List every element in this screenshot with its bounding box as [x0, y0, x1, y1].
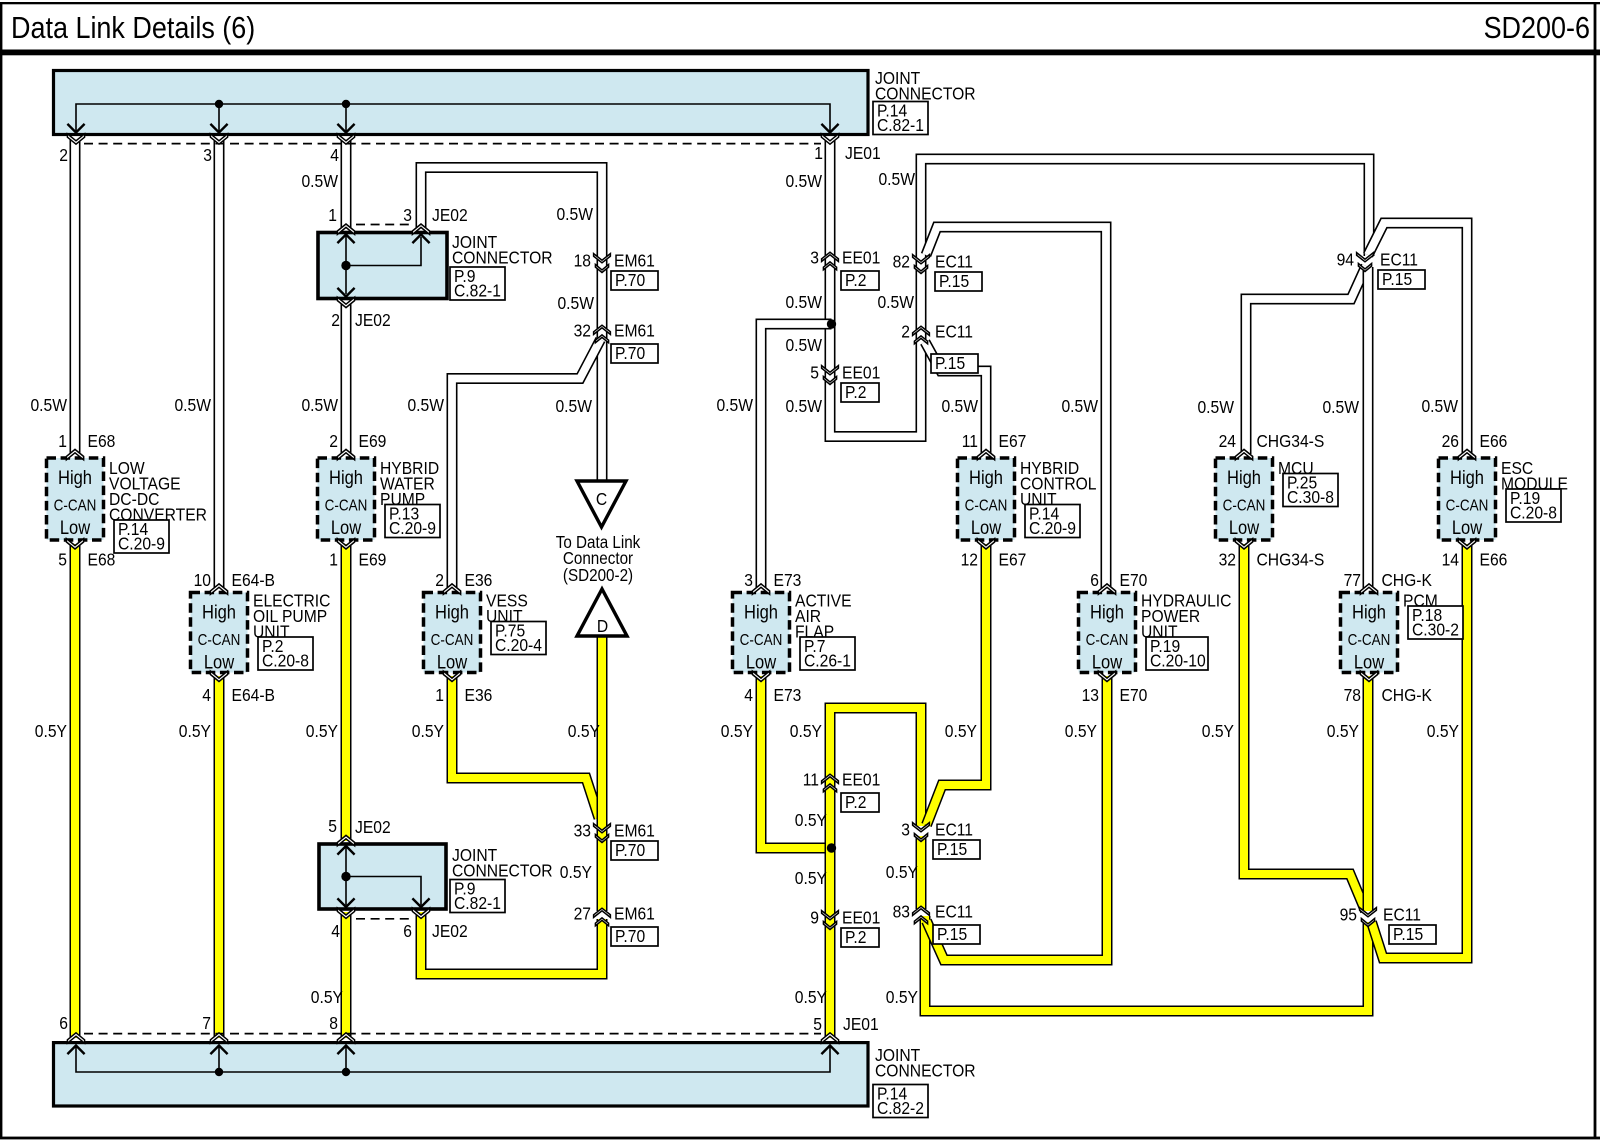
svg-text:0.5Y: 0.5Y [311, 987, 343, 1007]
svg-text:JE02: JE02 [432, 205, 468, 225]
svg-text:EC11: EC11 [1380, 249, 1418, 269]
svg-text:0.5W: 0.5W [1061, 396, 1098, 416]
svg-text:E67: E67 [999, 549, 1027, 569]
svg-text:0.5W: 0.5W [785, 171, 822, 191]
svg-text:C.30-2: C.30-2 [1412, 619, 1459, 639]
svg-text:0.5Y: 0.5Y [1327, 721, 1359, 741]
svg-text:P.15: P.15 [937, 839, 967, 859]
svg-text:Low: Low [60, 517, 90, 538]
svg-text:P.2: P.2 [845, 270, 866, 290]
svg-text:High: High [1450, 467, 1484, 488]
svg-text:E36: E36 [465, 570, 493, 590]
svg-text:E64-B: E64-B [232, 570, 275, 590]
svg-text:0.5Y: 0.5Y [795, 868, 827, 888]
svg-text:0.5W: 0.5W [785, 396, 822, 416]
svg-text:26: 26 [1442, 431, 1459, 451]
svg-text:C.20-4: C.20-4 [495, 635, 542, 655]
svg-text:0.5Y: 0.5Y [1065, 721, 1097, 741]
svg-text:E36: E36 [465, 685, 493, 705]
svg-text:0.5Y: 0.5Y [795, 810, 827, 830]
svg-text:8: 8 [329, 1013, 338, 1033]
svg-text:C-CAN: C-CAN [1086, 632, 1129, 649]
svg-text:EE01: EE01 [842, 769, 880, 789]
svg-text:E70: E70 [1120, 570, 1148, 590]
svg-text:0.5Y: 0.5Y [721, 721, 753, 741]
svg-text:CHG-K: CHG-K [1382, 685, 1433, 705]
svg-text:High: High [1227, 467, 1261, 488]
svg-text:0.5W: 0.5W [877, 292, 914, 312]
svg-text:Low: Low [746, 651, 776, 672]
svg-text:CHG34-S: CHG34-S [1257, 549, 1325, 569]
svg-text:High: High [1352, 601, 1386, 622]
svg-text:5: 5 [328, 816, 337, 836]
svg-text:EM61: EM61 [614, 903, 655, 923]
svg-text:0.5W: 0.5W [1197, 397, 1234, 417]
svg-text:4: 4 [331, 921, 340, 941]
svg-text:0.5W: 0.5W [30, 395, 67, 415]
svg-text:0.5W: 0.5W [407, 395, 444, 415]
svg-text:EC11: EC11 [935, 819, 973, 839]
svg-text:High: High [969, 467, 1003, 488]
svg-text:32: 32 [574, 320, 591, 340]
svg-text:Low: Low [331, 517, 361, 538]
svg-text:2: 2 [59, 145, 68, 165]
svg-text:1: 1 [435, 685, 444, 705]
svg-text:0.5Y: 0.5Y [306, 721, 338, 741]
svg-text:EC11: EC11 [935, 251, 973, 271]
svg-text:E70: E70 [1120, 685, 1148, 705]
svg-text:C.82-2: C.82-2 [877, 1098, 924, 1118]
svg-text:C-CAN: C-CAN [1446, 498, 1489, 515]
svg-text:C-CAN: C-CAN [325, 498, 368, 515]
svg-text:Low: Low [204, 651, 234, 672]
svg-text:Low: Low [1229, 517, 1259, 538]
svg-text:E68: E68 [88, 549, 116, 569]
svg-text:C-CAN: C-CAN [965, 498, 1008, 515]
svg-text:3: 3 [744, 570, 753, 590]
svg-text:CONNECTOR: CONNECTOR [875, 1060, 976, 1080]
svg-text:0.5W: 0.5W [556, 204, 593, 224]
svg-text:CONNECTOR: CONNECTOR [452, 247, 553, 267]
svg-text:3: 3 [403, 205, 412, 225]
svg-text:1: 1 [814, 143, 823, 163]
svg-text:E73: E73 [774, 685, 802, 705]
svg-text:0.5W: 0.5W [716, 395, 753, 415]
svg-text:P.15: P.15 [939, 271, 969, 291]
svg-text:JE02: JE02 [432, 921, 468, 941]
svg-text:E67: E67 [999, 431, 1027, 451]
svg-text:P.70: P.70 [615, 343, 645, 363]
svg-text:C-CAN: C-CAN [54, 498, 97, 515]
svg-text:77: 77 [1344, 570, 1361, 590]
svg-text:18: 18 [574, 250, 591, 270]
svg-text:2: 2 [901, 321, 910, 341]
svg-text:C.20-10: C.20-10 [1150, 650, 1206, 670]
svg-text:C.26-1: C.26-1 [804, 650, 851, 670]
svg-text:EM61: EM61 [614, 320, 655, 340]
svg-text:4: 4 [744, 685, 753, 705]
svg-text:32: 32 [1219, 549, 1236, 569]
svg-text:1: 1 [329, 549, 338, 569]
svg-text:83: 83 [893, 901, 910, 921]
svg-text:24: 24 [1219, 431, 1236, 451]
svg-text:0.5Y: 0.5Y [795, 987, 827, 1007]
svg-text:Data Link Details (6): Data Link Details (6) [11, 11, 255, 45]
svg-text:5: 5 [810, 362, 819, 382]
svg-text:High: High [744, 601, 778, 622]
svg-text:0.5Y: 0.5Y [790, 721, 822, 741]
svg-text:2: 2 [329, 431, 338, 451]
svg-text:EE01: EE01 [842, 362, 880, 382]
svg-text:2: 2 [435, 570, 444, 590]
svg-text:78: 78 [1344, 685, 1361, 705]
svg-text:E69: E69 [359, 549, 387, 569]
svg-text:12: 12 [961, 549, 978, 569]
svg-text:0.5W: 0.5W [301, 171, 338, 191]
svg-text:E73: E73 [774, 570, 802, 590]
svg-text:4: 4 [330, 145, 339, 165]
svg-text:6: 6 [59, 1013, 68, 1033]
svg-text:27: 27 [574, 903, 591, 923]
svg-text:P.70: P.70 [615, 926, 645, 946]
svg-text:0.5W: 0.5W [301, 395, 338, 415]
svg-text:0.5Y: 0.5Y [560, 862, 592, 882]
svg-text:Low: Low [1092, 651, 1122, 672]
svg-text:EE01: EE01 [842, 247, 880, 267]
svg-text:C: C [596, 489, 607, 509]
svg-text:11: 11 [803, 769, 819, 789]
svg-text:C-CAN: C-CAN [1223, 498, 1266, 515]
svg-text:9: 9 [810, 907, 819, 927]
svg-text:4: 4 [202, 685, 211, 705]
svg-text:5: 5 [58, 549, 67, 569]
svg-text:High: High [435, 601, 469, 622]
svg-text:0.5W: 0.5W [1322, 397, 1359, 417]
svg-text:CHG34-S: CHG34-S [1257, 431, 1325, 451]
svg-text:82: 82 [893, 251, 910, 271]
svg-text:14: 14 [1442, 549, 1459, 569]
svg-text:0.5W: 0.5W [557, 293, 594, 313]
svg-text:SD200-6: SD200-6 [1484, 11, 1590, 45]
svg-text:P.2: P.2 [845, 792, 866, 812]
svg-text:(SD200-2): (SD200-2) [563, 566, 633, 585]
svg-text:C.20-9: C.20-9 [389, 518, 436, 538]
svg-text:0.5W: 0.5W [174, 395, 211, 415]
svg-text:High: High [202, 601, 236, 622]
svg-text:C.30-8: C.30-8 [1287, 487, 1334, 507]
svg-text:0.5Y: 0.5Y [1202, 721, 1234, 741]
svg-text:13: 13 [1082, 685, 1099, 705]
svg-text:C.82-1: C.82-1 [454, 280, 501, 300]
svg-text:E66: E66 [1480, 431, 1508, 451]
svg-text:CHG-K: CHG-K [1382, 570, 1433, 590]
svg-text:JE01: JE01 [845, 143, 881, 163]
svg-text:3: 3 [901, 819, 910, 839]
svg-text:E64-B: E64-B [232, 685, 275, 705]
svg-text:High: High [1090, 601, 1124, 622]
svg-text:P.2: P.2 [845, 382, 866, 402]
svg-text:D: D [597, 616, 608, 636]
svg-text:C.20-9: C.20-9 [1029, 518, 1076, 538]
svg-text:1: 1 [58, 431, 67, 451]
svg-text:C-CAN: C-CAN [198, 632, 241, 649]
svg-text:E68: E68 [88, 431, 116, 451]
svg-text:0.5W: 0.5W [785, 335, 822, 355]
svg-text:Low: Low [1354, 651, 1384, 672]
svg-text:EM61: EM61 [614, 820, 655, 840]
svg-text:P.15: P.15 [1393, 924, 1423, 944]
svg-text:0.5Y: 0.5Y [568, 721, 600, 741]
svg-text:0.5Y: 0.5Y [412, 721, 444, 741]
svg-text:P.15: P.15 [1382, 269, 1412, 289]
svg-text:0.5Y: 0.5Y [35, 721, 67, 741]
svg-text:3: 3 [203, 145, 212, 165]
svg-text:5: 5 [813, 1014, 822, 1034]
svg-text:C.82-1: C.82-1 [877, 115, 924, 135]
svg-text:JE02: JE02 [355, 817, 391, 837]
svg-text:3: 3 [810, 247, 819, 267]
svg-text:P.70: P.70 [615, 270, 645, 290]
svg-text:6: 6 [403, 921, 412, 941]
svg-text:P.15: P.15 [937, 924, 967, 944]
svg-text:6: 6 [1090, 570, 1099, 590]
svg-text:0.5W: 0.5W [878, 169, 915, 189]
svg-text:C-CAN: C-CAN [740, 632, 783, 649]
svg-text:EM61: EM61 [614, 250, 655, 270]
svg-text:0.5Y: 0.5Y [1427, 721, 1459, 741]
svg-text:C.20-9: C.20-9 [118, 533, 165, 553]
svg-text:95: 95 [1340, 904, 1357, 924]
svg-text:P.70: P.70 [615, 840, 645, 860]
svg-text:94: 94 [1337, 249, 1354, 269]
svg-text:1: 1 [328, 205, 337, 225]
svg-text:EC11: EC11 [935, 901, 973, 921]
svg-text:Low: Low [437, 651, 467, 672]
svg-text:High: High [58, 467, 92, 488]
svg-text:11: 11 [962, 431, 978, 451]
svg-text:E69: E69 [359, 431, 387, 451]
svg-text:P.15: P.15 [935, 353, 965, 373]
svg-text:C.20-8: C.20-8 [262, 650, 309, 670]
svg-text:0.5Y: 0.5Y [179, 721, 211, 741]
svg-text:2: 2 [331, 310, 340, 330]
svg-text:EC11: EC11 [935, 321, 973, 341]
svg-text:P.2: P.2 [845, 927, 866, 947]
svg-text:C-CAN: C-CAN [431, 632, 474, 649]
svg-text:JE02: JE02 [355, 310, 391, 330]
svg-text:C-CAN: C-CAN [1348, 632, 1391, 649]
svg-text:C.82-1: C.82-1 [454, 893, 501, 913]
svg-text:0.5Y: 0.5Y [886, 862, 918, 882]
svg-text:0.5Y: 0.5Y [886, 987, 918, 1007]
svg-text:E66: E66 [1480, 549, 1508, 569]
svg-text:0.5W: 0.5W [1421, 396, 1458, 416]
svg-text:0.5Y: 0.5Y [945, 721, 977, 741]
svg-text:33: 33 [574, 820, 591, 840]
svg-text:High: High [329, 467, 363, 488]
svg-text:JE01: JE01 [843, 1014, 879, 1034]
svg-text:0.5W: 0.5W [555, 396, 592, 416]
svg-text:EC11: EC11 [1383, 904, 1421, 924]
svg-text:7: 7 [202, 1013, 211, 1033]
svg-text:0.5W: 0.5W [941, 396, 978, 416]
svg-text:C.20-8: C.20-8 [1510, 502, 1557, 522]
svg-text:EE01: EE01 [842, 907, 880, 927]
svg-text:Low: Low [971, 517, 1001, 538]
svg-text:10: 10 [194, 570, 211, 590]
svg-text:0.5W: 0.5W [785, 292, 822, 312]
svg-text:Low: Low [1452, 517, 1482, 538]
